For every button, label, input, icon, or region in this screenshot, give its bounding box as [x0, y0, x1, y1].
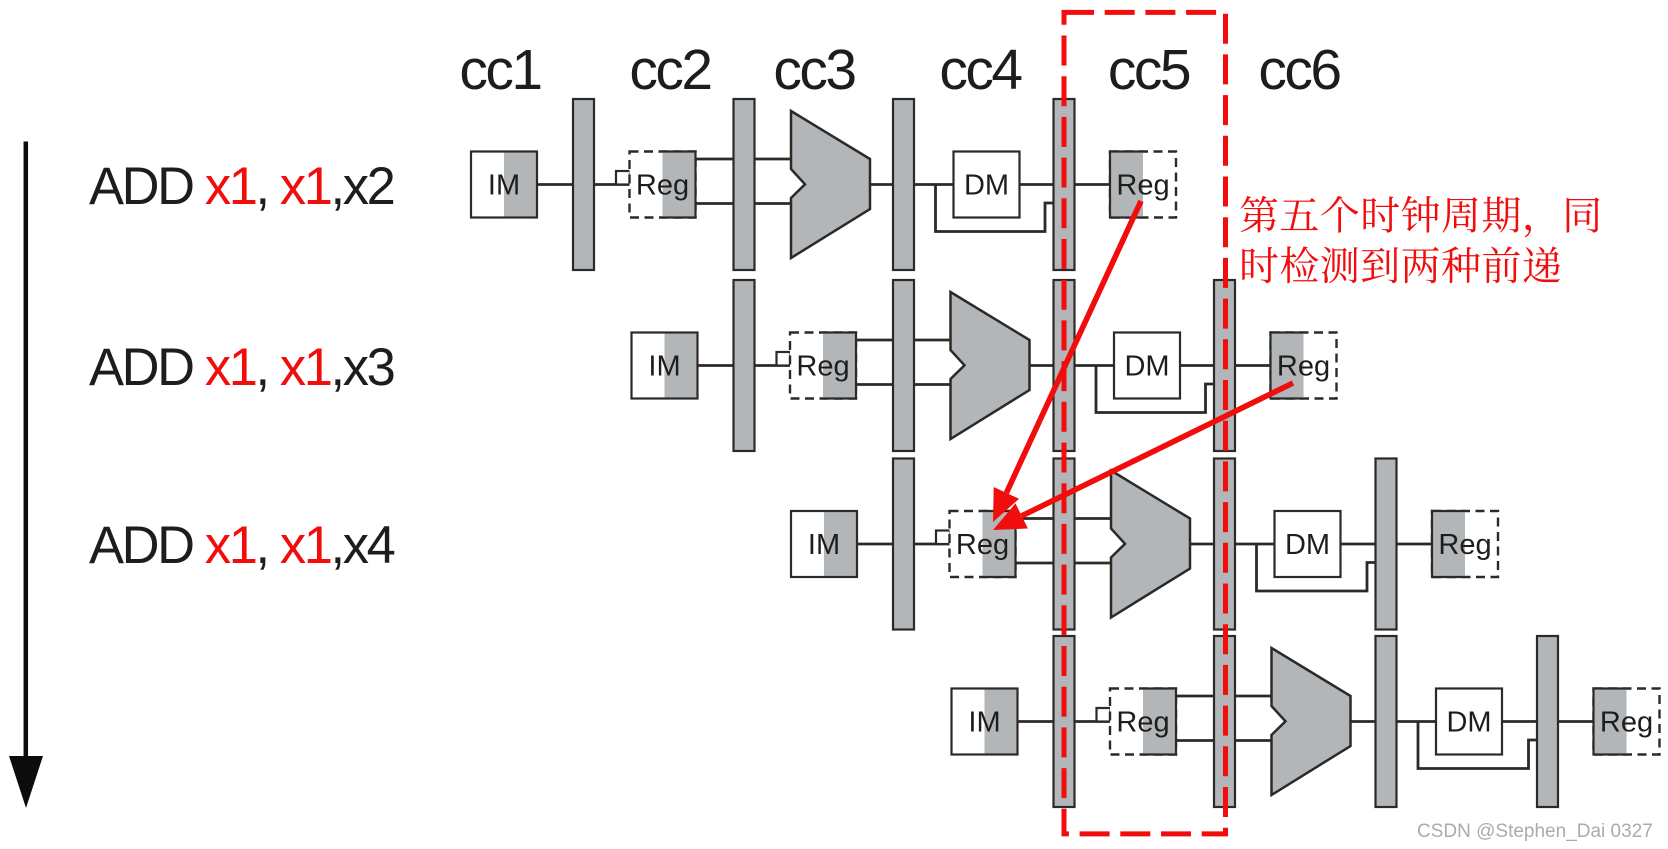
wire EX/MEM bar to DM row4: [1395, 720, 1436, 723]
svg-text:Reg: Reg: [796, 351, 849, 383]
pipeline register bar 3 row3: [1214, 459, 1235, 630]
IM box row2: [632, 333, 698, 399]
wire DM to MEM/WB bar row2: [1177, 364, 1216, 367]
red forwarding arrow 2 (from row2 WB Reg to row3 Reg): [993, 383, 1293, 530]
svg-text:IM: IM: [648, 351, 680, 383]
IM box row3: [791, 511, 857, 577]
wire MEM/WB bar to write-back Reg row2: [1234, 364, 1273, 367]
wire Reg lower output to ALU row4: [1174, 739, 1274, 742]
wire IF/ID bar to Reg row1: [593, 183, 632, 186]
svg-text:ADD x1, x1,x4: ADD x1, x1,x4: [89, 516, 395, 575]
wire EX/MEM bar to DM row3: [1234, 543, 1275, 546]
wire bypass under DM row1: [936, 185, 1056, 232]
svg-text:cc4: cc4: [939, 38, 1022, 102]
svg-text:CSDN @Stephen_Dai 0327: CSDN @Stephen_Dai 0327: [1417, 821, 1653, 842]
wire ALU output to EX/MEM bar row1: [869, 183, 895, 186]
wire IM to IF/ID bar row2: [696, 364, 735, 367]
pipeline register bar 2 row1: [734, 99, 755, 270]
clock-edge square row2: [777, 352, 791, 366]
program-order arrow (left): [9, 142, 43, 809]
clock-edge square row4: [1097, 708, 1111, 722]
svg-text:cc3: cc3: [773, 38, 855, 102]
wire Reg lower output to ALU row1: [694, 202, 794, 205]
DM box row3: [1275, 511, 1341, 577]
wire EX/MEM bar to DM row1: [913, 183, 954, 186]
DM box row1: [954, 152, 1020, 218]
pipeline register bar 3 row1: [893, 99, 914, 270]
svg-text:IM: IM: [968, 707, 1000, 739]
Reg read box row4: [1110, 689, 1176, 755]
Reg read box row1: [630, 152, 696, 218]
svg-text:Reg: Reg: [1277, 351, 1330, 383]
ALU row3: [1111, 471, 1190, 618]
clock-edge square row1: [616, 171, 630, 185]
ALU row1: [791, 111, 870, 258]
Reg write-back box row1: [1110, 152, 1176, 218]
wire ALU output to EX/MEM bar row4: [1350, 720, 1378, 723]
svg-text:DM: DM: [1446, 707, 1491, 739]
red forwarding arrow 1 (from row1 WB Reg to row3 Reg): [993, 201, 1141, 522]
wire DM to MEM/WB bar row4: [1499, 720, 1539, 723]
Reg write-back box row2: [1271, 333, 1337, 399]
wire Reg lower output to ALU row2: [854, 383, 953, 386]
wire bypass under DM row2: [1096, 366, 1216, 413]
ALU row2: [951, 292, 1030, 439]
wire bypass under DM row4: [1418, 722, 1539, 769]
red dashed highlight box around cc5: [1064, 12, 1226, 834]
IM box row4: [952, 689, 1018, 755]
wire IM to IF/ID bar row4: [1016, 720, 1055, 723]
pipeline register bar 3 row4: [1376, 636, 1397, 807]
Reg write-back box row3: [1432, 511, 1498, 577]
svg-text:cc2: cc2: [629, 38, 710, 102]
pipeline register bar 1 row2: [734, 280, 755, 451]
svg-text:Reg: Reg: [1600, 707, 1653, 739]
wire ALU output to EX/MEM bar row3: [1189, 543, 1216, 546]
svg-text:Reg: Reg: [1438, 529, 1491, 561]
svg-text:IM: IM: [488, 170, 520, 202]
pipeline register bar 3 row2: [1054, 280, 1075, 451]
pipeline register bar 1 row4: [1054, 636, 1075, 807]
svg-text:DM: DM: [1285, 529, 1330, 561]
pipeline register bar 1 row3: [893, 459, 914, 630]
wire Reg upper output to ALU row4: [1174, 695, 1274, 698]
clock-edge square row3: [936, 531, 950, 545]
svg-text:cc6: cc6: [1258, 38, 1340, 102]
red Chinese annotation line 2: [1242, 246, 1560, 283]
svg-text:DM: DM: [964, 170, 1009, 202]
wire Reg upper output to ALU row3: [1014, 517, 1114, 520]
svg-text:Reg: Reg: [956, 529, 1009, 561]
pipeline register bar 4 row3: [1376, 459, 1397, 630]
wire IM to IF/ID bar row1: [536, 183, 575, 186]
svg-text:cc1: cc1: [459, 38, 540, 102]
wire IF/ID bar to Reg row3: [913, 543, 952, 546]
svg-text:Reg: Reg: [1116, 170, 1169, 202]
wire IF/ID bar to Reg row4: [1073, 720, 1112, 723]
wire Reg lower output to ALU row3: [1014, 562, 1114, 565]
wire MEM/WB bar to write-back Reg row3: [1395, 543, 1434, 546]
DM box row4: [1436, 689, 1502, 755]
wire bypass under DM row3: [1257, 544, 1378, 591]
svg-text:Reg: Reg: [636, 170, 689, 202]
wire DM to MEM/WB bar row1: [1017, 183, 1056, 186]
wire Reg upper output to ALU row2: [854, 339, 953, 342]
pipeline register bar 4 row2: [1214, 280, 1235, 451]
ALU row4: [1272, 648, 1351, 795]
red Chinese annotation line 1: [1241, 196, 1600, 238]
pipeline register bar 4 row1: [1054, 99, 1075, 270]
wire IM to IF/ID bar row3: [856, 543, 895, 546]
pipeline register bar 2 row4: [1214, 636, 1235, 807]
Reg read box row2: [790, 333, 856, 399]
wire EX/MEM bar to DM row2: [1073, 364, 1114, 367]
Reg write-back box row4: [1594, 689, 1660, 755]
svg-text:cc5: cc5: [1108, 38, 1190, 102]
svg-text:DM: DM: [1124, 351, 1169, 383]
wire Reg upper output to ALU row1: [694, 158, 794, 161]
IM box row1: [471, 152, 537, 218]
wire IF/ID bar to Reg row2: [753, 364, 792, 367]
pipeline register bar 2 row3: [1054, 459, 1075, 630]
wire DM to MEM/WB bar row3: [1338, 543, 1378, 546]
Reg read box row3: [950, 511, 1016, 577]
svg-text:IM: IM: [808, 529, 840, 561]
wire MEM/WB bar to write-back Reg row4: [1557, 720, 1596, 723]
pipeline register bar 4 row4: [1537, 636, 1558, 807]
wire MEM/WB bar to write-back Reg row1: [1073, 183, 1112, 186]
svg-text:Reg: Reg: [1116, 707, 1169, 739]
svg-text:ADD x1, x1,x3: ADD x1, x1,x3: [89, 338, 394, 397]
svg-text:ADD x1, x1,x2: ADD x1, x1,x2: [89, 157, 394, 216]
DM box row2: [1114, 333, 1180, 399]
pipeline register bar 1 row1: [573, 99, 594, 270]
pipeline register bar 2 row2: [893, 280, 914, 451]
wire ALU output to EX/MEM bar row2: [1029, 364, 1056, 367]
